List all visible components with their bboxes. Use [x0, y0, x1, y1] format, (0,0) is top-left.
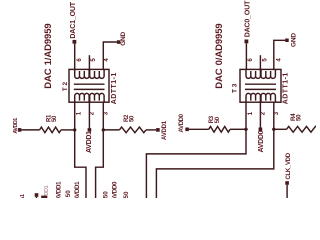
svg-text:DAC1_OUT: DAC1_OUT [70, 1, 77, 38]
svg-text:4: 4 [275, 58, 282, 62]
svg-text:5: 5 [261, 58, 268, 62]
wire pin1 T2 down-out [75, 130, 86, 198]
svg-text:DAC0_OUT: DAC0_OUT [244, 0, 251, 37]
junction pin1 T2 [73, 128, 76, 131]
wire pin3 lead T3 [273, 102, 275, 129]
wire R1 to pin1 T2 [61, 129, 75, 131]
port square DAC0_OUT [245, 40, 249, 44]
svg-text:5: 5 [90, 58, 97, 62]
wire pin3 lead T2 [102, 102, 104, 130]
port bar (bottom edge near x44) [41, 196, 47, 198]
transformer T2 ADTT1-1 [69, 69, 109, 102]
port square AVDD0 [185, 128, 189, 132]
svg-text:ADTT1-1: ADTT1-1 [111, 72, 118, 104]
svg-text:A1: A1 [20, 194, 26, 198]
wire pin2 lead T2 [88, 102, 90, 128]
svg-text:DAC 1/AD9959: DAC 1/AD9959 [43, 23, 54, 88]
svg-text:AVDD1: AVDD1 [55, 181, 62, 198]
svg-text:50: 50 [215, 116, 221, 123]
port square AVDD1 (pin2 T2) [88, 128, 92, 132]
port square CLK_VDD [285, 181, 289, 185]
svg-text:50: 50 [65, 190, 72, 197]
port square AVDD1 (right of R2) [156, 128, 160, 132]
port square AVDD0 (pin2 T3) [259, 128, 263, 132]
wire CLK_VDD down [286, 185, 288, 198]
svg-text:AVDD1: AVDD1 [74, 181, 81, 198]
svg-text:6: 6 [247, 58, 254, 62]
wire R3 to pin1 T3 [230, 128, 246, 130]
wire GND to pin4 T2 [103, 42, 117, 69]
svg-text:T 3: T 3 [231, 83, 238, 93]
svg-text:AVDD1: AVDD1 [86, 131, 93, 153]
port square DAC1_OUT [73, 40, 77, 44]
svg-text:1: 1 [247, 111, 254, 115]
svg-text:GND: GND [120, 31, 127, 45]
resistor R3 [209, 127, 230, 133]
wire pin3 T3 down-left-out [156, 129, 273, 198]
wire pin1 lead T3 [245, 102, 247, 129]
svg-text:6: 6 [76, 58, 83, 62]
wire pin5 stub T2 [88, 55, 90, 69]
svg-text:T 2: T 2 [62, 82, 69, 92]
wire pin6 lead T2 [74, 44, 76, 70]
junction pin3 T2 [102, 128, 105, 131]
svg-text:50: 50 [296, 114, 303, 121]
resistor R2 [119, 127, 146, 133]
svg-text:AVDD1: AVDD1 [162, 120, 168, 140]
wire AVDD0 to R3 [189, 128, 209, 130]
svg-text:ADTT1-1: ADTT1-1 [283, 72, 290, 104]
svg-text:AVDD0: AVDD0 [112, 181, 119, 198]
port square AVDD1 left [18, 128, 22, 132]
svg-text:50: 50 [123, 191, 130, 198]
port square GND right [285, 39, 289, 43]
svg-text:AVDD0: AVDD0 [179, 113, 185, 132]
wire pin1 T3 down-left-out [146, 129, 246, 198]
wire pin1 lead T2 [74, 102, 76, 130]
wire GND to pin4 T3 [274, 40, 285, 69]
wire R2 to AVDD1 [146, 129, 156, 131]
resistor R1 [40, 127, 61, 133]
port square (bottom edge) [35, 193, 39, 197]
wire pin5 stub T3 [259, 55, 261, 69]
svg-text:50: 50 [52, 115, 58, 122]
junction pin1 T3 [244, 128, 247, 131]
svg-text:1: 1 [76, 111, 83, 115]
wire AVDD1 to R1 [21, 129, 39, 131]
junction pin3 T3 [272, 128, 275, 131]
wire pin2 lead T3 [259, 102, 261, 127]
port square GND left [117, 40, 121, 44]
svg-text:DAC 0/AD9959: DAC 0/AD9959 [214, 23, 225, 88]
transformer T3 ADTT1-1 [240, 69, 281, 102]
svg-text:AVDD0: AVDD0 [258, 130, 265, 152]
wire pin6 lead T3 [245, 43, 247, 69]
wire pin3 T2 down-out [96, 130, 104, 198]
resistor R4 [287, 126, 317, 132]
svg-text:50: 50 [130, 115, 136, 122]
svg-text:50: 50 [102, 191, 109, 198]
wire square stub bottom [36, 197, 38, 198]
wire pin3 T3 to R4 [274, 128, 287, 130]
wire pin3 T2 to R2 [103, 129, 119, 131]
svg-text:CLK_VDD: CLK_VDD [286, 152, 292, 179]
svg-text:GND: GND [290, 33, 297, 47]
